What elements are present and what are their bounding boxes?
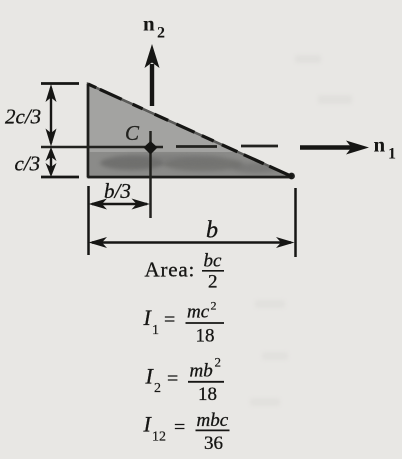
svg-text:12: 12 — [152, 430, 166, 445]
dim tick below left edge — [87, 186, 90, 255]
svg-text:mbc: mbc — [197, 410, 229, 431]
svg-text:2: 2 — [157, 25, 165, 42]
svg-text:2: 2 — [211, 299, 217, 313]
axis n1 dashes — [176, 145, 278, 148]
centroid horizontal line — [41, 146, 163, 149]
svg-text:I: I — [145, 364, 155, 389]
svg-text:n: n — [374, 133, 386, 157]
formula I1 — [143, 299, 225, 347]
formula I2 — [145, 355, 225, 406]
svg-text:bc: bc — [204, 251, 223, 272]
svg-text:18: 18 — [198, 384, 217, 405]
svg-text:=: = — [164, 309, 175, 331]
svg-text:C: C — [125, 121, 140, 145]
dim line 2c/3 — [46, 84, 57, 147]
svg-text:1: 1 — [388, 146, 396, 163]
axis n2 arrow — [145, 44, 160, 106]
svg-text:I: I — [143, 305, 153, 330]
faint scan bleed-through marks — [250, 55, 352, 406]
svg-text:2: 2 — [208, 272, 218, 293]
label n1 — [374, 133, 397, 163]
formula I12 — [143, 410, 230, 454]
centroid vertical line — [149, 131, 152, 218]
svg-text:b: b — [206, 218, 218, 244]
axis n1 arrow — [300, 141, 369, 155]
svg-text:I: I — [143, 412, 153, 437]
svg-text:n: n — [143, 12, 155, 36]
svg-text:=: = — [167, 368, 178, 390]
svg-text:1: 1 — [152, 323, 159, 338]
dim tick bottom-left — [41, 176, 79, 179]
dim tick top — [41, 82, 79, 85]
svg-text:mc: mc — [187, 302, 210, 323]
centroid C dot — [144, 141, 158, 155]
svg-text:mb: mb — [190, 361, 213, 382]
svg-text:c/3: c/3 — [15, 152, 41, 176]
svg-text:18: 18 — [196, 326, 215, 347]
label n2 — [143, 12, 165, 42]
dim line b — [89, 237, 295, 248]
svg-text:=: = — [174, 417, 185, 439]
triangular plate — [88, 84, 295, 179]
svg-text:36: 36 — [204, 433, 223, 454]
dim tick below tip — [294, 188, 297, 257]
dim line c/3 — [46, 147, 57, 177]
dim line b/3 — [89, 199, 151, 210]
svg-text:b/3: b/3 — [104, 179, 131, 203]
svg-text:2c/3: 2c/3 — [5, 105, 41, 129]
svg-text:Area:: Area: — [145, 258, 196, 282]
dashed hypotenuse — [88, 84, 293, 177]
formula Area — [145, 251, 225, 293]
svg-text:2: 2 — [154, 381, 161, 396]
svg-text:2: 2 — [215, 355, 222, 370]
